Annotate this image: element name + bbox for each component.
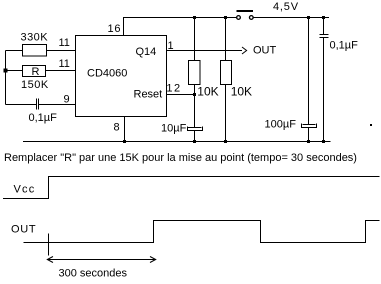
svg-text:4,5V: 4,5V	[273, 1, 299, 13]
svg-text:0,1µF: 0,1µF	[29, 112, 58, 124]
svg-text:12: 12	[166, 83, 181, 95]
node junction dot bottom rail at pin8	[123, 140, 126, 143]
node junction dot top rail at 10K#2	[224, 16, 227, 19]
measure arrowhead right	[150, 257, 156, 263]
wire pin 8 to bottom rail	[124, 117, 126, 142]
node junction dot bottom rail at 0,1uF	[322, 140, 325, 143]
svg-text:CD4060: CD4060	[87, 68, 127, 80]
wire 10K#2 branch upper	[225, 18, 227, 61]
wire 100uF branch upper	[308, 18, 310, 125]
switch S1 actuator bar	[237, 10, 254, 12]
waveform OUT trace	[24, 221, 380, 243]
svg-text:1: 1	[168, 40, 174, 52]
capacitor C3 100uF bottom bracket plate	[302, 124, 317, 128]
svg-text:9: 9	[64, 94, 70, 106]
svg-text:8: 8	[114, 122, 120, 134]
svg-text:16: 16	[108, 23, 122, 35]
node junction dot left bus at R row	[4, 69, 8, 73]
svg-text:100µF: 100µF	[265, 119, 297, 131]
wire 100uF to bottom rail	[308, 128, 310, 142]
svg-text:R: R	[32, 66, 40, 78]
measure tick at t0	[48, 234, 50, 256]
wire pin 9 row right of cap	[39, 104, 76, 106]
wire R row right to pin 11	[46, 70, 76, 72]
wire top rail from pin16 corner to switch	[124, 18, 237, 36]
node junction dot bottom rail at 10K#2	[224, 140, 227, 143]
wire 10uF to bottom rail	[194, 131, 196, 142]
wire top rail right of switch	[254, 17, 330, 19]
OUT arrowhead	[242, 47, 247, 54]
waveform Vcc trace	[3, 177, 380, 199]
resistor R3 10K body	[189, 61, 201, 85]
wire 0,1uF branch upper	[323, 18, 325, 35]
svg-text:10µF: 10µF	[161, 123, 187, 135]
svg-text:Reset: Reset	[134, 89, 163, 101]
switch S1 left contact circle	[237, 16, 241, 20]
node junction dot reset	[193, 93, 196, 96]
svg-text:OUT: OUT	[11, 224, 36, 236]
node junction dot bottom rail at 100uF	[307, 140, 310, 143]
capacitor C4 0,1uF plates	[320, 35, 329, 38]
svg-text:330K: 330K	[21, 32, 49, 44]
node junction dot top rail at 10K#1	[193, 16, 196, 19]
wire pin 1 OUT line	[167, 50, 243, 52]
svg-text:10K: 10K	[197, 85, 218, 99]
wire 10K#1 branch upper	[194, 18, 196, 61]
wire 0,1uF to bottom rail	[323, 38, 325, 142]
IC U1 CD4060 body	[76, 36, 167, 117]
svg-text:10K: 10K	[231, 85, 252, 99]
svg-text:Q14: Q14	[136, 46, 157, 58]
wire 10K#2 branch lower to bottom rail	[225, 85, 227, 142]
capacitor C1 0,1uF series plates	[37, 99, 39, 110]
measure arrow line 300 secondes	[49, 259, 155, 261]
switch S1 right contact circle	[249, 16, 253, 20]
svg-text:11: 11	[59, 37, 70, 49]
svg-text:300 secondes: 300 secondes	[59, 268, 128, 280]
resistor R4 10K body	[221, 61, 232, 85]
svg-text:OUT: OUT	[253, 45, 277, 57]
wire 330K row right to pin 11	[47, 50, 76, 52]
capacitor C2 10uF top plate	[188, 127, 202, 129]
svg-text:0,1µF: 0,1µF	[330, 40, 359, 52]
stray dot artifact	[370, 124, 372, 126]
measure arrowhead left	[47, 257, 53, 263]
wire R row left	[6, 70, 23, 72]
node junction dot top rail at 100uF	[307, 16, 310, 19]
wire left vertical bus	[5, 51, 7, 105]
svg-text:11: 11	[59, 58, 70, 70]
resistor R1 330K body	[23, 45, 47, 57]
node junction dot bottom rail at 10uF	[193, 140, 196, 143]
svg-text:Vcc: Vcc	[14, 184, 36, 196]
resistor R2 body (R / 150K)	[23, 66, 46, 77]
capacitor C2 10uF bottom bracket plate	[188, 127, 203, 131]
capacitor C3 100uF top plate	[303, 124, 316, 126]
wire pin 12 to reset node	[167, 94, 195, 96]
svg-text:150K: 150K	[21, 79, 49, 91]
node junction dot top rail at 0,1uF	[322, 16, 325, 19]
svg-text:Remplacer "R" par une 15K pour: Remplacer "R" par une 15K pour la mise a…	[4, 152, 357, 164]
wire pin 9 row left of cap	[6, 104, 37, 106]
wire 10K#1 branch lower to 10uF	[194, 85, 196, 128]
wire 330K row left	[6, 50, 23, 52]
wire bottom rail (0V)	[23, 141, 331, 143]
